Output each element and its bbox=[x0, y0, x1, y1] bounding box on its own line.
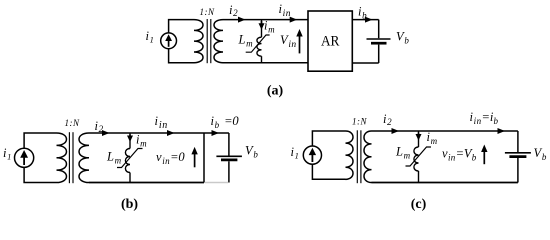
transformer primary winding (c) bbox=[346, 131, 354, 179]
arrow iin (a) bbox=[290, 17, 298, 23]
transformer secondary winding (a) bbox=[214, 20, 223, 63]
inductor Lm (a) bbox=[261, 20, 263, 38]
arrow ib (a) bbox=[365, 17, 373, 23]
svg-text:(a): (a) bbox=[267, 84, 284, 99]
battery Vb (b) bbox=[216, 133, 242, 183]
arrow i2 (c) bbox=[392, 128, 400, 134]
wire primary loop (c) bbox=[312, 131, 345, 146]
wire right edge (b) bbox=[203, 133, 205, 183]
Lm variable arrow (b) bbox=[117, 149, 143, 168]
arrow im (b) bbox=[129, 135, 131, 137]
Lm variable arrow (a) bbox=[246, 35, 270, 52]
wire top rail (b) bbox=[89, 132, 204, 134]
transformer secondary winding (b) bbox=[79, 133, 89, 183]
wire battery bottom to AR (a) bbox=[352, 62, 378, 64]
wire primary loop (a) bbox=[169, 49, 194, 63]
transformer secondary winding (c) bbox=[364, 131, 372, 183]
battery Vb (c) bbox=[517, 131, 519, 152]
arrow Vin (a) bbox=[299, 35, 301, 53]
wire bottom rail (a) bbox=[223, 62, 308, 64]
inductor Lm (b) bbox=[129, 133, 131, 149]
wire bottom rail (b) bbox=[89, 182, 204, 184]
subcircuit (c) bbox=[303, 130, 531, 183]
transformer core (a) bbox=[206, 19, 208, 63]
wire AR to battery top (a) bbox=[352, 19, 378, 21]
svg-text:1:N: 1:N bbox=[200, 7, 215, 17]
arrow iin (b) bbox=[167, 130, 175, 136]
wire battery return greyed (b) bbox=[205, 182, 228, 184]
wire primary loop (b) bbox=[24, 133, 56, 148]
arrow iin=ib (c) bbox=[498, 128, 506, 134]
subcircuit (a) bbox=[161, 19, 308, 63]
op block AR U1 bbox=[308, 11, 352, 71]
wire top rail (c) bbox=[372, 130, 518, 132]
arrow im (a) bbox=[261, 21, 263, 27]
svg-text:(b): (b) bbox=[121, 197, 138, 212]
arrow i2 (a) bbox=[238, 17, 246, 23]
wire loop to battery (b) bbox=[204, 132, 229, 134]
arrow vin (b) bbox=[194, 152, 196, 167]
current source i1 (a) bbox=[161, 33, 177, 49]
svg-text:(c): (c) bbox=[411, 197, 427, 212]
battery Vb (a) bbox=[352, 20, 390, 63]
arrow i2 (b) bbox=[102, 130, 110, 136]
current source i1 (c) bbox=[303, 146, 321, 164]
svg-text:AR: AR bbox=[321, 34, 340, 50]
subcircuit (b) bbox=[15, 132, 205, 183]
current source i1 (b) bbox=[15, 148, 34, 167]
Lm variable arrow (c) bbox=[406, 147, 432, 166]
transformer core (b) bbox=[68, 132, 70, 183]
inductor Lm (c) bbox=[418, 131, 420, 147]
svg-text:1:N: 1:N bbox=[352, 117, 367, 127]
transformer primary winding (a) bbox=[194, 20, 203, 63]
transformer core (c) bbox=[356, 130, 358, 183]
arrow ib (b) bbox=[212, 130, 220, 136]
wire bottom rail (c) bbox=[372, 182, 518, 184]
wire top rail (a) bbox=[223, 19, 308, 21]
transformer primary winding (b) bbox=[57, 133, 67, 183]
arrow im (c) bbox=[418, 133, 420, 135]
svg-text:vin=0: vin=0 bbox=[156, 150, 185, 166]
svg-text:1:N: 1:N bbox=[65, 118, 80, 128]
arrow vin (c) bbox=[483, 150, 485, 164]
